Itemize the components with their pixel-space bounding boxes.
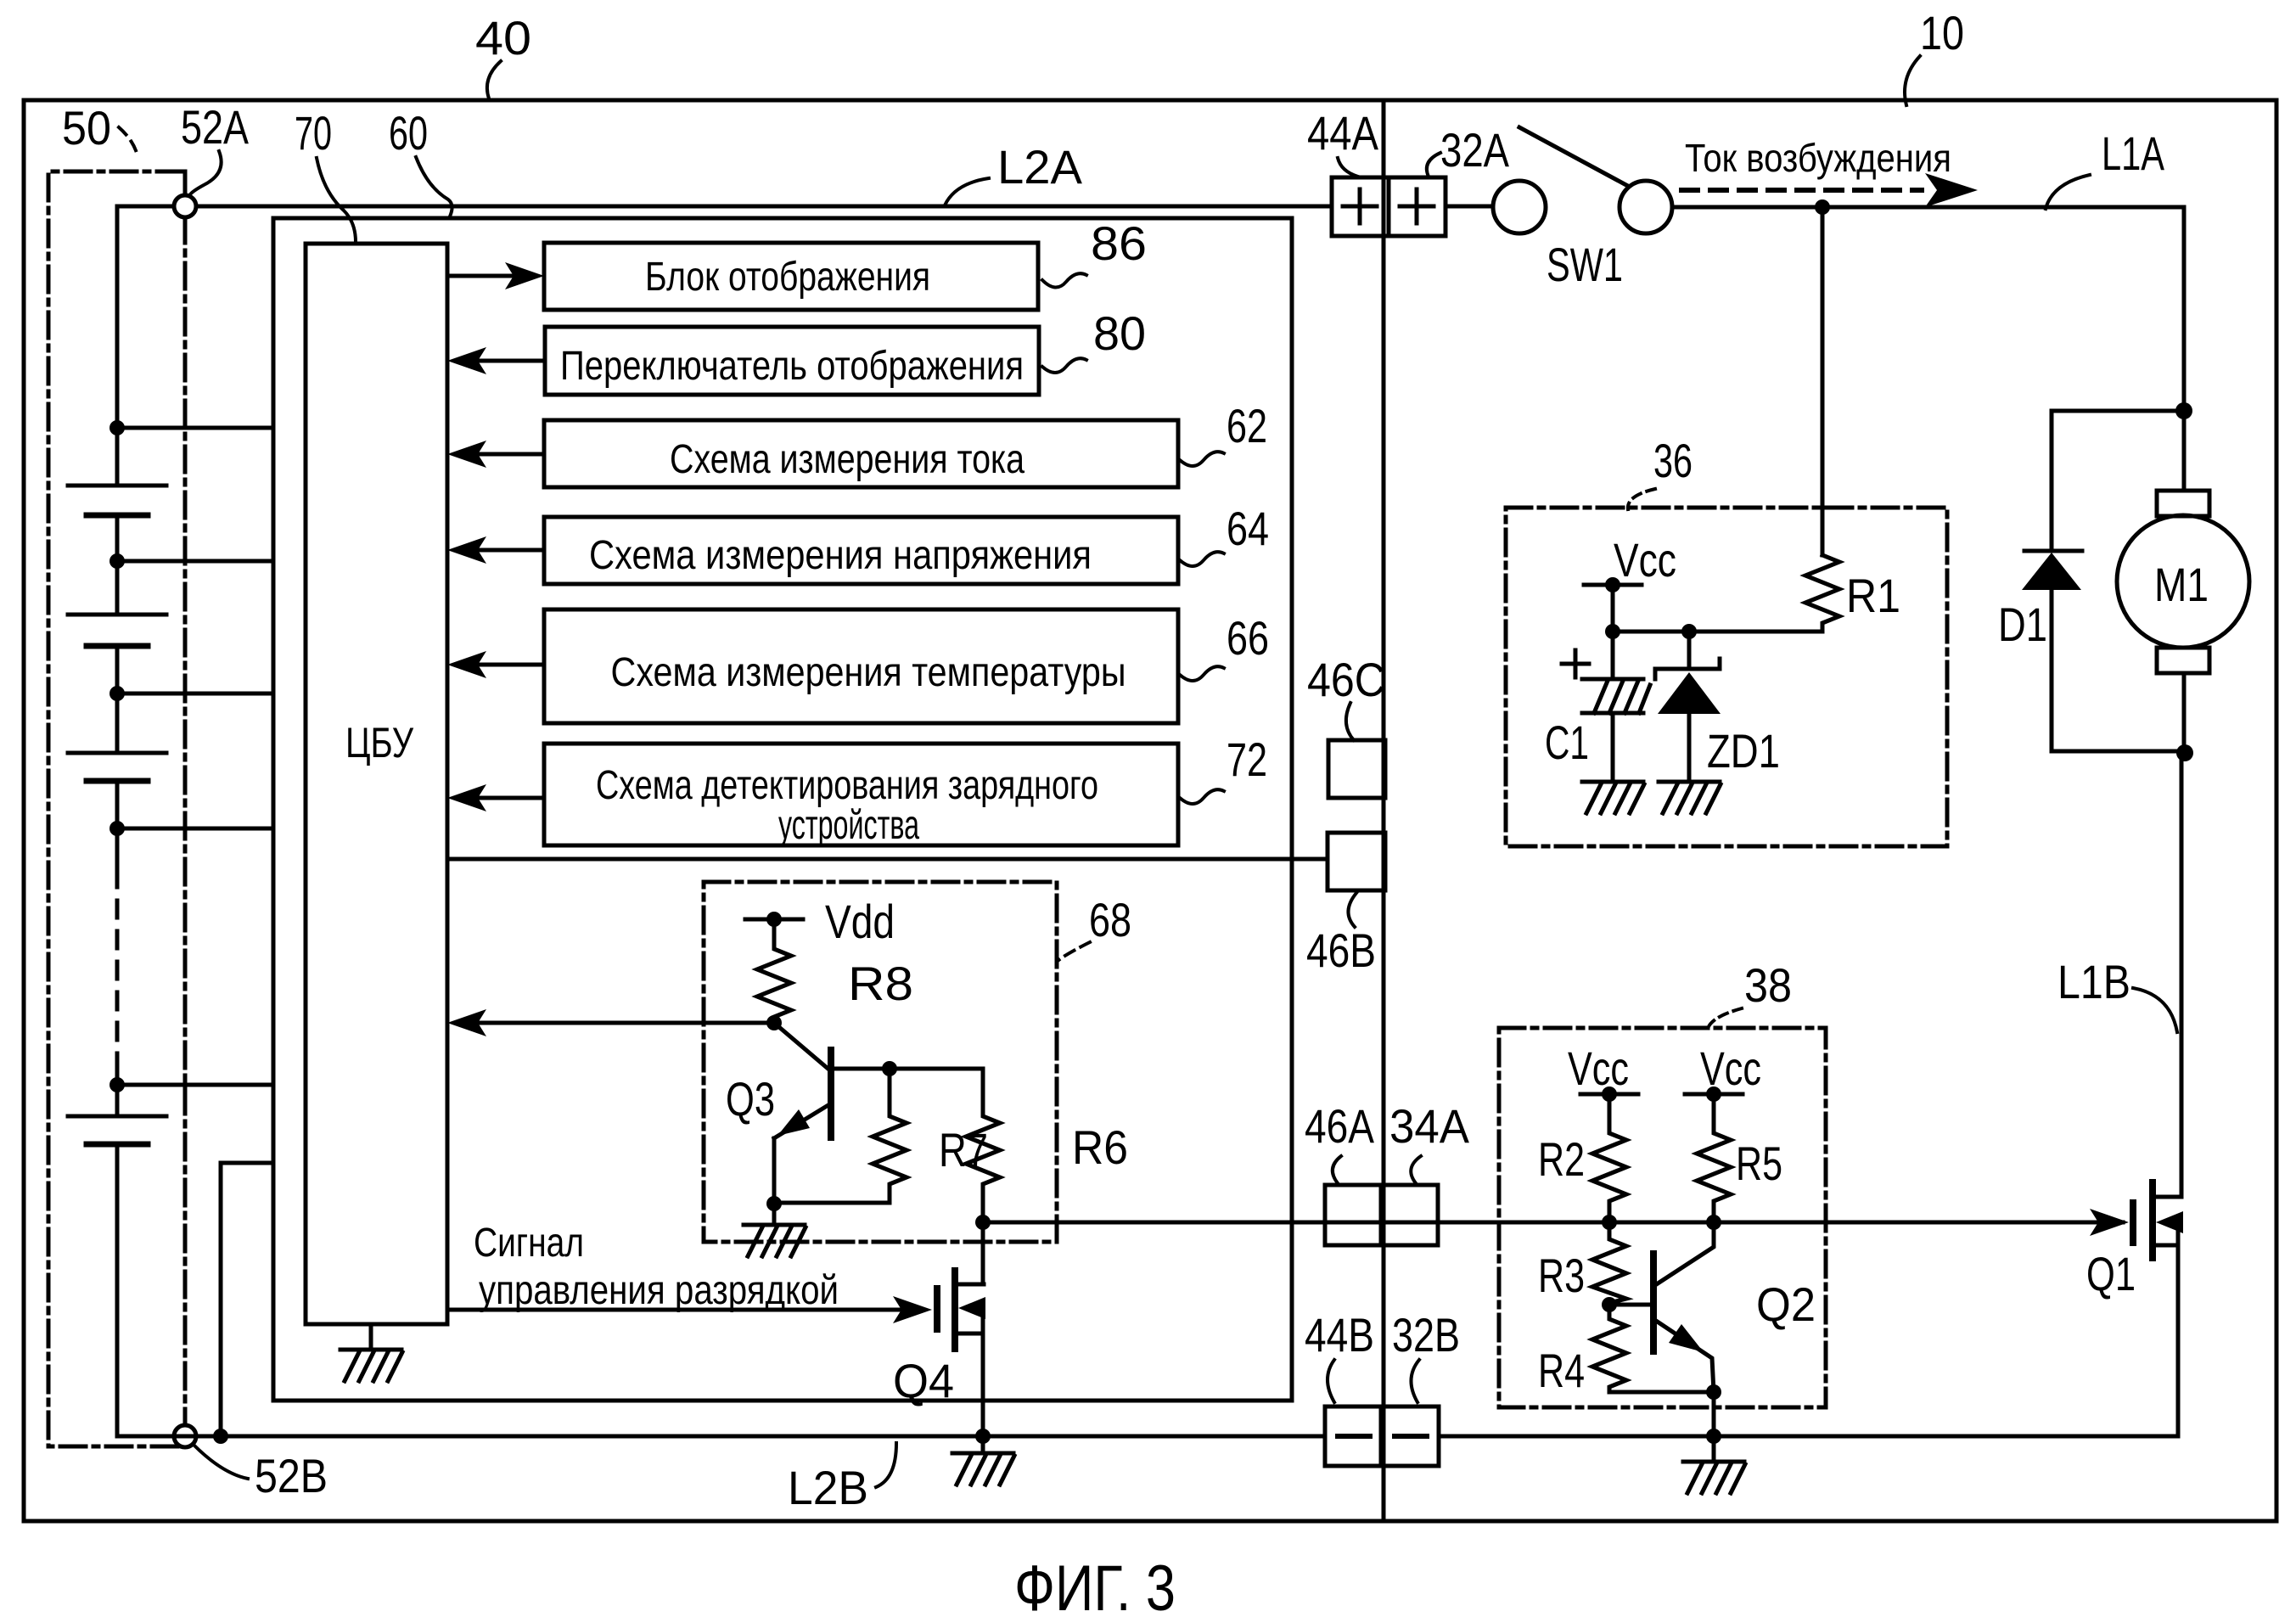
junction dot Vcc/C1 node bbox=[1605, 624, 1620, 639]
wire L1B from motor to Q1 drain bbox=[2180, 753, 2184, 1197]
battery cell 2 long plate bbox=[68, 613, 166, 617]
label 70 bbox=[295, 106, 332, 160]
battery cell 3 short plate bbox=[87, 778, 148, 784]
ground under ZD1 bbox=[1659, 782, 1721, 813]
leader for label 32B bbox=[1411, 1360, 1419, 1402]
svg-text:Блок отображения: Блок отображения bbox=[645, 255, 930, 300]
svg-text:70: 70 bbox=[295, 106, 332, 160]
function box 62 current measuring circuit bbox=[544, 420, 1178, 487]
base wire of Q3 to R7/R6 bbox=[831, 1067, 983, 1071]
arrow from CBU to box 86 bbox=[447, 274, 523, 278]
leader for label L2A bbox=[945, 178, 989, 205]
junction dot on minus bus under Q2 bbox=[1706, 1429, 1721, 1444]
leader for label 86 bbox=[1042, 273, 1086, 287]
arrow from box 80 into CBU bbox=[469, 359, 545, 363]
svg-text:Q3: Q3 bbox=[726, 1072, 775, 1126]
svg-text:50: 50 bbox=[62, 101, 111, 154]
arrow from box 64 into CBU bbox=[469, 548, 544, 553]
svg-text:66: 66 bbox=[1227, 611, 1269, 665]
wire Vcc to node bbox=[1611, 585, 1615, 632]
leader for label 46A bbox=[1333, 1156, 1341, 1183]
svg-text:Схема измерения напряжения: Схема измерения напряжения bbox=[589, 533, 1092, 578]
junction dot R6 bottom on gate wire bbox=[975, 1215, 991, 1230]
junction dot motor top bbox=[2175, 402, 2192, 419]
function box 72 charger detection circuit bbox=[544, 744, 1178, 845]
wire SW1 to L1A corner bbox=[1672, 207, 2184, 411]
connector box 44B bbox=[1325, 1406, 1381, 1466]
label 10 bbox=[1920, 6, 1964, 59]
leader for label 66 bbox=[1180, 666, 1224, 681]
ground under C1 bbox=[1582, 782, 1644, 813]
resistor R2 bbox=[1592, 1094, 1626, 1222]
minus bus wire L2B bbox=[117, 1435, 1325, 1439]
svg-text:52B: 52B bbox=[255, 1449, 328, 1502]
svg-text:Q1: Q1 bbox=[2086, 1247, 2136, 1300]
divider wall between module 40 and module 10 bbox=[1382, 100, 1386, 1521]
connector box 46B bbox=[1328, 833, 1385, 890]
leader for label 40 bbox=[487, 61, 501, 98]
leader for label L1B bbox=[2133, 988, 2177, 1032]
wire 32A to switch SW1 bbox=[1446, 205, 1492, 209]
svg-text:Схема измерения тока: Схема измерения тока bbox=[670, 437, 1024, 482]
sense wire from minus bus up into board 60 bbox=[221, 1163, 273, 1436]
svg-text:52A: 52A bbox=[181, 100, 250, 154]
wire to tap 5 bbox=[115, 1068, 120, 1116]
junction dot tap 3 bbox=[109, 686, 125, 701]
MOSFET Q4 bbox=[937, 1271, 985, 1436]
battery cell 1 short plate bbox=[87, 513, 148, 519]
ground under CBU box 70 bbox=[340, 1324, 402, 1381]
label 46B bbox=[1306, 924, 1376, 977]
node wire to R1 bottom bbox=[1613, 630, 1822, 634]
leader for label 62 bbox=[1180, 452, 1224, 466]
label 68 bbox=[1089, 893, 1131, 946]
label 32A bbox=[1440, 123, 1510, 177]
gate drive wire from CBU to Q4 bbox=[447, 1308, 913, 1312]
svg-text:Vcc: Vcc bbox=[1700, 1042, 1761, 1095]
function box 80 display switch bbox=[545, 327, 1039, 395]
connector box 32A bbox=[1389, 177, 1446, 236]
wire cell2 to cell3 bbox=[115, 646, 120, 753]
plus supply wire L2A bbox=[196, 205, 1332, 209]
svg-text:L1A: L1A bbox=[2102, 126, 2164, 180]
label 52B bbox=[255, 1449, 328, 1502]
wire from CBU to connector 46B bbox=[447, 857, 1328, 862]
svg-text:44B: 44B bbox=[1305, 1308, 1374, 1362]
svg-text:38: 38 bbox=[1744, 958, 1792, 1012]
figure caption bbox=[1014, 1552, 1176, 1617]
resistor R3 bbox=[1592, 1222, 1626, 1305]
function box 66 temperature measuring circuit bbox=[544, 609, 1178, 723]
label text CBU bbox=[345, 719, 413, 766]
svg-text:68: 68 bbox=[1089, 893, 1131, 946]
label 46A bbox=[1305, 1099, 1375, 1153]
svg-text:46B: 46B bbox=[1306, 924, 1376, 977]
leader for label 52B bbox=[194, 1445, 248, 1479]
excitation current dashed arrow bbox=[1681, 188, 1922, 193]
switch SW1 blade bbox=[1519, 127, 1626, 185]
svg-text:60: 60 bbox=[389, 106, 428, 160]
label 64 bbox=[1227, 502, 1269, 555]
leader for label 38 bbox=[1708, 1008, 1742, 1029]
minus sign in 32B bbox=[1395, 1434, 1427, 1439]
svg-text:Схема измерения температуры: Схема измерения температуры bbox=[611, 650, 1126, 695]
resistor R1 bbox=[1805, 555, 1839, 632]
svg-text:ФИГ. 3: ФИГ. 3 bbox=[1014, 1552, 1176, 1617]
junction dot motor bottom bbox=[2176, 744, 2193, 761]
label 40 bbox=[475, 11, 531, 65]
battery cell 1 long plate bbox=[68, 484, 166, 488]
wire cell4 to minus bus bbox=[117, 1144, 174, 1436]
leader for label 32A bbox=[1427, 153, 1440, 177]
label 60 bbox=[389, 106, 428, 160]
ground under Q3 emitter bbox=[744, 1204, 806, 1256]
svg-text:44A: 44A bbox=[1307, 106, 1379, 160]
junction dot tap 1 bbox=[109, 420, 125, 435]
transistor Q2 bbox=[1653, 1222, 1714, 1392]
label L1A bbox=[2102, 126, 2164, 180]
svg-text:Ток возбуждения: Ток возбуждения bbox=[1685, 136, 1951, 180]
svg-text:80: 80 bbox=[1093, 306, 1146, 360]
leader for label 36 bbox=[1628, 489, 1655, 509]
svg-text:устройства: устройства bbox=[778, 803, 919, 848]
battery cell 3 long plate bbox=[68, 751, 166, 755]
sense tap wire 4 bbox=[117, 827, 273, 831]
label 38 bbox=[1744, 958, 1792, 1012]
ground under Q2 bbox=[1683, 1436, 1745, 1493]
leader for label 50 bbox=[119, 127, 138, 156]
svg-text:10: 10 bbox=[1920, 6, 1964, 59]
diode D1 bbox=[2022, 551, 2082, 751]
svg-text:D1: D1 bbox=[1998, 598, 2047, 651]
svg-text:L1B: L1B bbox=[2057, 955, 2130, 1008]
label 36 bbox=[1653, 434, 1693, 487]
sense tap wire 2 bbox=[117, 559, 273, 564]
junction dot Q4 source on minus bus bbox=[975, 1429, 991, 1444]
leader for label L1A bbox=[2046, 175, 2090, 209]
circuit board 60 boundary bbox=[273, 218, 1292, 1401]
junction dot on minus bus at sense wire bbox=[213, 1429, 228, 1444]
diode D1 branch wire bbox=[2052, 411, 2184, 551]
svg-text:72: 72 bbox=[1227, 733, 1267, 786]
arrow from box 72 into CBU bbox=[469, 796, 544, 800]
leader for label 70 bbox=[317, 158, 356, 242]
svg-text:46A: 46A bbox=[1305, 1099, 1375, 1153]
resistor R4 bbox=[1592, 1305, 1714, 1392]
gate drive wire from R6 node to Q1 bbox=[983, 1221, 2123, 1225]
label 50 bbox=[62, 101, 111, 154]
junction dot tap 5 bbox=[109, 1077, 125, 1092]
svg-text:Q2: Q2 bbox=[1756, 1277, 1816, 1331]
connector box 44A bbox=[1332, 177, 1389, 236]
node 52B terminal circle bbox=[174, 1425, 196, 1447]
battery pack 50 dash-dot right edge bbox=[183, 171, 188, 1446]
junction dot Q3 emitter / R7 bottom bbox=[766, 1196, 782, 1211]
motor M1 bbox=[2117, 411, 2249, 751]
junction dot tap 4 bbox=[109, 821, 125, 836]
svg-text:R3: R3 bbox=[1538, 1249, 1585, 1302]
svg-text:R8: R8 bbox=[848, 957, 913, 1010]
battery cell 2 short plate bbox=[87, 643, 148, 649]
label 52A bbox=[181, 100, 250, 154]
battery cell 4 short plate bbox=[87, 1142, 148, 1148]
leader for label 68 bbox=[1058, 942, 1090, 961]
discharge control circuit 68 dash-dot boundary bbox=[704, 882, 1057, 1242]
arrow from box 66 into CBU bbox=[469, 663, 544, 667]
leader for label 34A bbox=[1411, 1156, 1421, 1183]
label 80 bbox=[1093, 306, 1146, 360]
function box 86 display unit bbox=[544, 243, 1038, 310]
Vcc supply tick left in box 38 bbox=[1580, 1092, 1638, 1097]
svg-text:34A: 34A bbox=[1389, 1099, 1470, 1153]
wire with arrow from node into CBU bbox=[469, 1021, 774, 1025]
connector box 46C bbox=[1328, 740, 1385, 798]
wire from R6 junction down to Q4 drain bbox=[981, 1222, 985, 1284]
arrow from box 62 into CBU bbox=[469, 452, 544, 457]
junction dot on L1A wire above R1 bbox=[1815, 199, 1830, 215]
label 34A bbox=[1389, 1099, 1470, 1153]
sense tap wire 5 bbox=[117, 1083, 273, 1087]
wire cell3 down bbox=[115, 781, 120, 870]
charger detection circuit 36 dash-dot boundary bbox=[1506, 508, 1947, 846]
battery string dashed continuation bbox=[115, 870, 120, 1068]
ground under Q4 bbox=[952, 1436, 1014, 1485]
svg-text:Vcc: Vcc bbox=[1614, 533, 1676, 587]
label 62 bbox=[1227, 399, 1267, 452]
label 66 bbox=[1227, 611, 1269, 665]
switch SW1 contact circle 2 bbox=[1620, 181, 1672, 233]
switch SW1 contact circle 1 bbox=[1493, 181, 1546, 233]
svg-text:46C: 46C bbox=[1307, 653, 1385, 706]
svg-text:86: 86 bbox=[1091, 216, 1147, 270]
svg-text:SW1: SW1 bbox=[1547, 238, 1623, 291]
battery string upper taps wire bbox=[115, 428, 120, 486]
minus sign in 44B bbox=[1338, 1434, 1370, 1439]
label 46C bbox=[1307, 653, 1385, 706]
svg-text:C1: C1 bbox=[1545, 716, 1589, 769]
wire from node 52A to battery string bbox=[117, 206, 174, 428]
plus sign in 32A bbox=[1400, 189, 1434, 223]
protection circuit 38 dash-dot boundary bbox=[1499, 1028, 1826, 1407]
capacitor C1 plus sign bbox=[1562, 650, 1589, 677]
label SW1 bbox=[1547, 238, 1623, 291]
svg-text:36: 36 bbox=[1653, 434, 1693, 487]
junction dot tap 2 bbox=[109, 553, 125, 569]
excitation current label bbox=[1685, 136, 1951, 180]
node 52A terminal circle bbox=[174, 195, 196, 217]
leader for label 64 bbox=[1180, 552, 1224, 566]
MOSFET Q1 bbox=[2133, 1182, 2183, 1258]
resistor R5 bbox=[1697, 1094, 1731, 1222]
svg-text:R4: R4 bbox=[1538, 1344, 1585, 1397]
leader for label 80 bbox=[1042, 358, 1086, 373]
Vdd supply tick in box 68 bbox=[745, 918, 803, 922]
label 44B bbox=[1305, 1308, 1374, 1362]
svg-text:Q4: Q4 bbox=[893, 1354, 954, 1407]
wire cell1 to tap2 bbox=[115, 515, 120, 615]
label L1B bbox=[2057, 955, 2130, 1008]
svg-text:R5: R5 bbox=[1736, 1137, 1782, 1190]
resistor R6 bbox=[966, 1069, 1000, 1222]
svg-text:управления разрядкой: управления разрядкой bbox=[479, 1268, 839, 1313]
svg-text:R2: R2 bbox=[1538, 1132, 1585, 1186]
junction dot R8 bottom / Q3 collector bbox=[766, 1015, 782, 1030]
svg-text:32B: 32B bbox=[1392, 1308, 1460, 1362]
svg-text:R6: R6 bbox=[1072, 1120, 1128, 1174]
battery cell 4 long plate bbox=[68, 1114, 166, 1119]
svg-text:64: 64 bbox=[1227, 502, 1269, 555]
leader for label L2B bbox=[876, 1443, 896, 1487]
label 32B bbox=[1392, 1308, 1460, 1362]
leader for label 46C bbox=[1346, 703, 1354, 740]
junction dot R3/R4/base bbox=[1602, 1297, 1617, 1312]
svg-text:32A: 32A bbox=[1440, 123, 1510, 177]
discharge control signal label bbox=[474, 1221, 584, 1266]
svg-text:Сигнал: Сигнал bbox=[474, 1221, 584, 1266]
label 44A bbox=[1307, 106, 1379, 160]
minus bus right section to Q1 source bbox=[1439, 1245, 2178, 1436]
connector box 34A bbox=[1381, 1185, 1438, 1245]
svg-text:40: 40 bbox=[475, 11, 531, 65]
svg-text:R1: R1 bbox=[1846, 569, 1900, 622]
svg-text:ЦБУ: ЦБУ bbox=[345, 719, 413, 766]
capacitor C1 bbox=[1582, 632, 1650, 782]
junction dot Q2 emitter / R4 bbox=[1706, 1384, 1721, 1400]
zener diode ZD1 bbox=[1655, 632, 1721, 782]
transistor Q3 bbox=[774, 1023, 831, 1204]
svg-text:ZD1: ZD1 bbox=[1707, 724, 1780, 778]
svg-text:L2B: L2B bbox=[788, 1461, 868, 1514]
leader for label 44A bbox=[1338, 158, 1358, 177]
function box 64 voltage measuring circuit bbox=[544, 517, 1178, 584]
svg-text:Vdd: Vdd bbox=[825, 895, 895, 948]
wire Q2 emitter to minus bus bbox=[1712, 1392, 1716, 1436]
svg-text:Vcc: Vcc bbox=[1568, 1042, 1629, 1095]
leader for label 52A bbox=[189, 151, 222, 199]
label L2A bbox=[997, 140, 1083, 194]
label 86 bbox=[1091, 216, 1147, 270]
wire D1 bottom to motor bottom junction bbox=[2052, 750, 2185, 754]
leader for label 46B bbox=[1348, 893, 1356, 927]
connector box 32B bbox=[1381, 1406, 1439, 1466]
plus sign in 44A bbox=[1343, 189, 1377, 223]
resistor R8 bbox=[757, 919, 791, 1023]
base wire R3/R4 to Q2 bbox=[1609, 1303, 1650, 1307]
leader for label 10 bbox=[1905, 56, 1920, 105]
junction dot base/R7 bbox=[882, 1061, 897, 1076]
Vcc supply tick right in box 38 bbox=[1685, 1092, 1743, 1097]
svg-text:Переключатель отображения: Переключатель отображения bbox=[560, 344, 1024, 389]
battery pack 50 dash-dot boundary bbox=[48, 171, 182, 1446]
wire from L1A junction down to R1 bbox=[1821, 207, 1825, 555]
junction dot ZD1 node bbox=[1681, 624, 1697, 639]
Vcc supply tick in box 36 bbox=[1584, 583, 1642, 587]
label L2B bbox=[788, 1461, 868, 1514]
svg-text:M1: M1 bbox=[2154, 558, 2209, 611]
resistor R7 bbox=[774, 1069, 907, 1203]
junction dot R2/R3 on gate wire bbox=[1602, 1215, 1617, 1230]
svg-text:Схема детектирования зарядного: Схема детектирования зарядного bbox=[596, 763, 1098, 808]
leader for label 60 bbox=[416, 157, 452, 216]
label 72 bbox=[1227, 733, 1267, 786]
svg-text:62: 62 bbox=[1227, 399, 1267, 452]
sense tap wire 1 bbox=[117, 426, 273, 430]
junction dot R5/Q2 collector on gate wire bbox=[1706, 1215, 1721, 1230]
svg-text:L2A: L2A bbox=[997, 140, 1083, 194]
MCU box 70 (CBU) bbox=[306, 244, 447, 1324]
connector box 46A bbox=[1325, 1185, 1381, 1245]
sense tap wire 3 bbox=[117, 692, 273, 696]
leader for label 72 bbox=[1180, 789, 1224, 804]
leader for label 44B bbox=[1328, 1360, 1334, 1402]
